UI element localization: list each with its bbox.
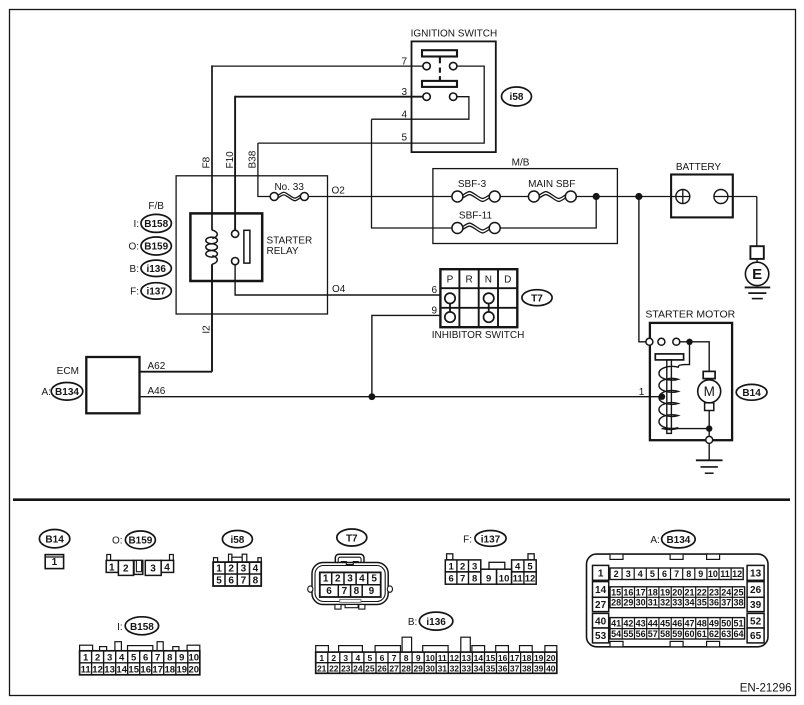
svg-text:SBF-3: SBF-3 bbox=[458, 179, 487, 190]
svg-text:58: 58 bbox=[660, 629, 670, 639]
svg-text:32: 32 bbox=[660, 598, 670, 608]
svg-text:16: 16 bbox=[623, 587, 633, 597]
svg-text:I:: I: bbox=[133, 219, 139, 230]
svg-text:11: 11 bbox=[720, 569, 730, 579]
svg-text:23: 23 bbox=[341, 663, 351, 673]
svg-text:22: 22 bbox=[329, 663, 339, 673]
connector view B14 drawing bbox=[45, 555, 63, 569]
svg-text:36: 36 bbox=[709, 598, 719, 608]
svg-text:5: 5 bbox=[368, 653, 373, 663]
svg-text:12: 12 bbox=[450, 653, 460, 663]
svg-text:T7: T7 bbox=[346, 533, 358, 544]
inhibitor switch contacts N bbox=[484, 293, 494, 303]
svg-text:44: 44 bbox=[648, 618, 658, 628]
svg-text:4: 4 bbox=[359, 574, 365, 585]
solenoid coil bbox=[659, 365, 685, 430]
svg-text:13: 13 bbox=[104, 664, 115, 675]
svg-text:13: 13 bbox=[462, 653, 472, 663]
svg-text:IGNITION SWITCH: IGNITION SWITCH bbox=[411, 28, 498, 39]
connector view i136 drawing bbox=[316, 637, 557, 673]
svg-text:O:: O: bbox=[112, 536, 123, 547]
svg-text:19: 19 bbox=[534, 653, 544, 663]
starter motor box bbox=[650, 323, 732, 440]
svg-text:26: 26 bbox=[750, 585, 762, 596]
svg-text:F/B: F/B bbox=[148, 201, 164, 212]
svg-text:ECM: ECM bbox=[57, 366, 79, 377]
svg-text:F:: F: bbox=[463, 534, 472, 545]
svg-text:F8: F8 bbox=[202, 156, 213, 168]
inhibitor switch contacts P bbox=[445, 293, 455, 303]
svg-text:8: 8 bbox=[253, 576, 259, 587]
svg-text:37: 37 bbox=[721, 598, 731, 608]
svg-text:3: 3 bbox=[472, 561, 477, 572]
svg-text:D: D bbox=[504, 275, 511, 286]
svg-text:A46: A46 bbox=[148, 386, 166, 397]
svg-text:9: 9 bbox=[486, 574, 491, 585]
svg-text:1: 1 bbox=[216, 564, 222, 575]
svg-text:1: 1 bbox=[52, 557, 58, 568]
svg-text:25: 25 bbox=[733, 587, 743, 597]
svg-text:EN-21296: EN-21296 bbox=[740, 682, 792, 694]
svg-text:5: 5 bbox=[371, 574, 377, 585]
svg-text:14: 14 bbox=[595, 585, 607, 596]
battery positive terminal bbox=[676, 190, 690, 204]
svg-text:A62: A62 bbox=[148, 361, 166, 372]
svg-text:50: 50 bbox=[721, 618, 731, 628]
wire relay bottom contact to O4/pin6 bbox=[235, 265, 440, 295]
svg-text:23: 23 bbox=[709, 587, 719, 597]
svg-text:2: 2 bbox=[123, 564, 129, 575]
svg-text:64: 64 bbox=[733, 629, 743, 639]
svg-text:6: 6 bbox=[228, 576, 234, 587]
svg-text:59: 59 bbox=[672, 629, 682, 639]
svg-text:9: 9 bbox=[369, 586, 375, 597]
svg-text:MAIN SBF: MAIN SBF bbox=[528, 179, 575, 190]
svg-text:No. 33: No. 33 bbox=[274, 182, 304, 193]
svg-text:29: 29 bbox=[413, 663, 423, 673]
ignition switch box bbox=[412, 41, 496, 152]
solenoid plunger T-bar bbox=[655, 354, 683, 360]
ignition switch linkage dashed line bbox=[439, 68, 441, 81]
relay coil bbox=[206, 230, 218, 264]
solenoid contact circle 3 bbox=[673, 338, 680, 345]
svg-text:27: 27 bbox=[389, 663, 399, 673]
svg-text:10: 10 bbox=[708, 569, 718, 579]
motor M bbox=[698, 380, 721, 403]
svg-text:R: R bbox=[465, 275, 472, 286]
svg-text:B134: B134 bbox=[666, 535, 690, 546]
separator line between schematic and connector views bbox=[13, 498, 790, 501]
solenoid plunger stem bbox=[667, 360, 672, 434]
svg-text:3: 3 bbox=[241, 564, 247, 575]
svg-text:F:: F: bbox=[130, 287, 139, 298]
svg-text:19: 19 bbox=[177, 664, 188, 675]
wire pin 5 to B38 vertical bbox=[258, 143, 270, 196]
svg-text:2: 2 bbox=[335, 574, 341, 585]
svg-text:18: 18 bbox=[522, 653, 532, 663]
ignition switch contact (pole2 right) bbox=[450, 93, 457, 100]
svg-text:16: 16 bbox=[140, 664, 151, 675]
motor brush bottom bbox=[705, 403, 714, 411]
svg-text:1: 1 bbox=[639, 387, 645, 398]
svg-text:O:: O: bbox=[128, 242, 139, 253]
svg-text:7: 7 bbox=[674, 569, 679, 579]
svg-text:7: 7 bbox=[241, 576, 247, 587]
relay armature bar bbox=[244, 230, 250, 263]
svg-text:1: 1 bbox=[319, 653, 324, 663]
svg-text:25: 25 bbox=[365, 663, 375, 673]
wire MAIN SBF to battery bbox=[576, 196, 671, 198]
svg-text:17: 17 bbox=[636, 587, 646, 597]
wire pin 3 to F10 bbox=[235, 96, 423, 98]
svg-text:10: 10 bbox=[425, 653, 435, 663]
connector view B159 drawing bbox=[106, 555, 173, 576]
svg-text:20: 20 bbox=[546, 653, 556, 663]
ground connector square bbox=[750, 246, 763, 259]
svg-text:36: 36 bbox=[498, 663, 508, 673]
svg-text:21: 21 bbox=[317, 663, 327, 673]
svg-text:I:: I: bbox=[117, 622, 123, 633]
svg-text:13: 13 bbox=[750, 568, 762, 579]
svg-text:24: 24 bbox=[721, 587, 731, 597]
svg-text:42: 42 bbox=[623, 618, 633, 628]
svg-text:33: 33 bbox=[462, 663, 472, 673]
svg-text:B:: B: bbox=[408, 617, 417, 628]
svg-text:8: 8 bbox=[472, 574, 477, 585]
svg-text:A:: A: bbox=[41, 387, 50, 398]
svg-text:29: 29 bbox=[623, 598, 633, 608]
svg-text:8: 8 bbox=[404, 653, 409, 663]
svg-text:B159: B159 bbox=[144, 242, 168, 253]
svg-text:A:: A: bbox=[650, 535, 659, 546]
svg-text:4: 4 bbox=[401, 110, 407, 121]
svg-text:49: 49 bbox=[709, 618, 719, 628]
svg-text:35: 35 bbox=[486, 663, 496, 673]
svg-text:6: 6 bbox=[448, 574, 453, 585]
svg-text:4: 4 bbox=[164, 562, 170, 573]
svg-text:2: 2 bbox=[95, 652, 100, 663]
solenoid contact circle 2 bbox=[658, 338, 665, 345]
svg-text:i136: i136 bbox=[426, 617, 446, 628]
F/B fuse box outline bbox=[176, 176, 327, 314]
wire pole2 right contact to pin 4 bbox=[372, 97, 469, 120]
svg-text:T7: T7 bbox=[531, 293, 543, 304]
svg-text:14: 14 bbox=[474, 653, 484, 663]
wire battery junction to starter motor bbox=[639, 197, 646, 342]
svg-text:52: 52 bbox=[750, 616, 762, 627]
ignition switch contact pin 3 bbox=[423, 93, 430, 100]
svg-text:8: 8 bbox=[167, 652, 172, 663]
svg-text:F10: F10 bbox=[225, 151, 236, 169]
svg-text:34: 34 bbox=[684, 598, 694, 608]
svg-text:2: 2 bbox=[614, 569, 619, 579]
svg-text:14: 14 bbox=[116, 664, 127, 675]
svg-text:B134: B134 bbox=[55, 387, 79, 398]
svg-text:B158: B158 bbox=[130, 622, 154, 633]
svg-text:31: 31 bbox=[438, 663, 448, 673]
svg-text:63: 63 bbox=[721, 629, 731, 639]
svg-text:38: 38 bbox=[522, 663, 532, 673]
relay contact top bbox=[232, 230, 239, 237]
svg-text:30: 30 bbox=[425, 663, 435, 673]
svg-text:30: 30 bbox=[636, 598, 646, 608]
wire junction to solenoid coil bbox=[684, 342, 690, 365]
svg-text:5: 5 bbox=[401, 132, 407, 143]
M/B fuse box outline bbox=[433, 169, 618, 244]
svg-text:45: 45 bbox=[660, 618, 670, 628]
wire pin 7 to F8 bbox=[212, 65, 423, 67]
svg-text:B14: B14 bbox=[742, 388, 761, 399]
svg-text:3: 3 bbox=[150, 564, 156, 575]
battery box bbox=[671, 175, 733, 218]
svg-text:6: 6 bbox=[662, 569, 667, 579]
svg-text:11: 11 bbox=[438, 653, 447, 663]
connector view i58 label bbox=[222, 531, 252, 548]
wire A46 to starter motor pin 1 bbox=[140, 396, 663, 398]
ignition switch pole bar 2 bbox=[422, 81, 457, 87]
svg-text:1: 1 bbox=[83, 652, 89, 663]
connector view B158 drawing bbox=[80, 642, 200, 675]
solenoid contact circle 1 bbox=[646, 338, 653, 345]
svg-text:40: 40 bbox=[546, 663, 556, 673]
svg-text:SBF-11: SBF-11 bbox=[459, 210, 493, 221]
svg-text:53: 53 bbox=[595, 631, 607, 642]
svg-text:i58: i58 bbox=[230, 535, 244, 546]
svg-text:11: 11 bbox=[513, 574, 524, 585]
svg-text:7: 7 bbox=[155, 652, 160, 663]
svg-text:i137: i137 bbox=[146, 287, 166, 298]
connector ref i58 bbox=[502, 87, 532, 106]
junction dot M/B bbox=[593, 193, 600, 200]
ignition switch pole bar 1 bbox=[422, 50, 457, 56]
svg-text:34: 34 bbox=[474, 663, 484, 673]
wire No.33 to SBF-3 (O2) bbox=[308, 196, 452, 198]
svg-text:55: 55 bbox=[623, 629, 633, 639]
svg-text:6: 6 bbox=[380, 653, 385, 663]
ignition switch contact pin 7 bbox=[423, 62, 430, 69]
wire F10 vertical bbox=[234, 96, 236, 231]
wire SBF-11 to junction bbox=[500, 197, 596, 229]
svg-text:3: 3 bbox=[347, 574, 353, 585]
wire coil bottom to motor return bbox=[662, 428, 710, 430]
junction dot A46/pin9 bbox=[369, 393, 376, 400]
svg-text:37: 37 bbox=[510, 663, 520, 673]
junction dot motor return bbox=[706, 425, 712, 431]
svg-text:5: 5 bbox=[131, 652, 137, 663]
svg-text:5: 5 bbox=[527, 561, 533, 572]
ignition switch contact (pole1 right) bbox=[450, 62, 457, 69]
svg-text:15: 15 bbox=[128, 664, 139, 675]
svg-text:10: 10 bbox=[189, 652, 200, 663]
svg-text:39: 39 bbox=[750, 600, 762, 611]
svg-text:7: 7 bbox=[392, 653, 397, 663]
svg-text:5: 5 bbox=[216, 576, 222, 587]
svg-text:17: 17 bbox=[152, 664, 163, 675]
svg-text:O2: O2 bbox=[332, 186, 346, 197]
svg-text:4: 4 bbox=[119, 652, 125, 663]
svg-text:9: 9 bbox=[416, 653, 421, 663]
svg-text:27: 27 bbox=[595, 600, 607, 611]
svg-text:N: N bbox=[485, 275, 492, 286]
svg-text:65: 65 bbox=[750, 631, 762, 642]
wire SBF-3 to MAIN SBF bbox=[500, 196, 528, 198]
connector view T7 label bbox=[337, 529, 367, 546]
svg-text:9: 9 bbox=[698, 569, 703, 579]
junction dot pin 1 on coil bbox=[659, 394, 665, 400]
junction dot battery feed bbox=[635, 193, 642, 200]
svg-text:M/B: M/B bbox=[512, 158, 530, 169]
motor brush top bbox=[703, 371, 715, 378]
svg-text:6: 6 bbox=[143, 652, 148, 663]
svg-text:3: 3 bbox=[626, 569, 631, 579]
svg-text:12: 12 bbox=[92, 664, 103, 675]
svg-text:i136: i136 bbox=[146, 264, 166, 275]
svg-text:I2: I2 bbox=[201, 325, 212, 334]
svg-text:3: 3 bbox=[107, 652, 112, 663]
starter relay box bbox=[190, 213, 262, 281]
svg-text:7: 7 bbox=[460, 574, 465, 585]
wire F8 vertical bbox=[211, 65, 213, 230]
svg-text:2: 2 bbox=[228, 564, 234, 575]
connector view i58 drawing bbox=[213, 554, 261, 586]
svg-text:18: 18 bbox=[648, 587, 658, 597]
svg-text:51: 51 bbox=[733, 618, 743, 628]
svg-text:48: 48 bbox=[697, 618, 707, 628]
svg-text:17: 17 bbox=[510, 653, 520, 663]
svg-text:6: 6 bbox=[326, 586, 332, 597]
connector view B134 drawing bbox=[587, 554, 769, 647]
connector view B14 label bbox=[39, 530, 69, 548]
fuse No. 33 bbox=[270, 193, 278, 201]
wire pin 4 down to SBF-11 bbox=[372, 119, 453, 228]
svg-text:1: 1 bbox=[598, 568, 604, 579]
svg-text:19: 19 bbox=[660, 587, 670, 597]
svg-text:9: 9 bbox=[179, 652, 184, 663]
svg-text:31: 31 bbox=[648, 598, 658, 608]
svg-text:40: 40 bbox=[595, 616, 607, 627]
svg-text:i137: i137 bbox=[481, 534, 501, 545]
svg-text:2: 2 bbox=[460, 561, 465, 572]
svg-text:3: 3 bbox=[343, 653, 348, 663]
svg-text:BATTERY: BATTERY bbox=[676, 162, 722, 173]
svg-text:12: 12 bbox=[525, 574, 536, 585]
inhibitor switch grid bbox=[440, 269, 517, 327]
svg-text:56: 56 bbox=[636, 629, 646, 639]
svg-text:O4: O4 bbox=[332, 284, 346, 295]
svg-text:B159: B159 bbox=[128, 536, 152, 547]
svg-text:41: 41 bbox=[611, 618, 621, 628]
svg-text:4: 4 bbox=[638, 569, 643, 579]
relay contact bottom bbox=[232, 258, 239, 265]
svg-text:11: 11 bbox=[81, 664, 92, 675]
svg-text:INHIBITOR SWITCH: INHIBITOR SWITCH bbox=[432, 330, 525, 341]
svg-text:4: 4 bbox=[253, 564, 259, 575]
svg-text:B158: B158 bbox=[144, 219, 168, 230]
svg-text:6: 6 bbox=[431, 285, 437, 296]
svg-text:1: 1 bbox=[448, 561, 454, 572]
svg-text:STARTER MOTOR: STARTER MOTOR bbox=[645, 309, 735, 321]
connector ref B14 bbox=[736, 384, 767, 400]
svg-text:60: 60 bbox=[684, 629, 694, 639]
connector ref T7 bbox=[522, 290, 552, 306]
wire relay coil to A62 (I2 vertical) bbox=[211, 264, 213, 372]
wire motor to ground contact bbox=[708, 411, 710, 429]
svg-text:5: 5 bbox=[650, 569, 655, 579]
svg-text:1: 1 bbox=[109, 562, 115, 573]
svg-text:4: 4 bbox=[356, 653, 361, 663]
wire pin 9 to A46 junction bbox=[372, 315, 441, 396]
ground symbol (starter motor) bbox=[708, 443, 710, 460]
svg-text:10: 10 bbox=[499, 574, 510, 585]
svg-text:43: 43 bbox=[636, 618, 646, 628]
svg-text:12: 12 bbox=[732, 569, 742, 579]
connector view T7 drawing bbox=[308, 554, 393, 609]
wire A62 to relay coil bbox=[140, 371, 213, 373]
svg-text:61: 61 bbox=[697, 629, 707, 639]
svg-text:M: M bbox=[704, 384, 715, 399]
svg-text:46: 46 bbox=[672, 618, 682, 628]
svg-text:24: 24 bbox=[353, 663, 363, 673]
svg-text:B14: B14 bbox=[45, 535, 64, 546]
svg-text:4: 4 bbox=[515, 561, 521, 572]
ground E circle bbox=[745, 262, 768, 285]
svg-text:38: 38 bbox=[733, 598, 743, 608]
wire contact 3 to motor feed bbox=[680, 342, 709, 372]
svg-text:26: 26 bbox=[377, 663, 387, 673]
svg-text:9: 9 bbox=[431, 306, 437, 317]
svg-text:28: 28 bbox=[401, 663, 411, 673]
svg-text:B:: B: bbox=[130, 264, 139, 275]
wire pole1 right contact to pin 5 bbox=[258, 66, 484, 143]
svg-text:54: 54 bbox=[611, 629, 621, 639]
svg-text:20: 20 bbox=[189, 664, 200, 675]
ECM box bbox=[86, 357, 139, 413]
svg-text:18: 18 bbox=[165, 664, 176, 675]
ground symbol (battery) bbox=[745, 286, 771, 288]
svg-text:STARTER: STARTER bbox=[267, 236, 313, 247]
svg-text:7: 7 bbox=[342, 586, 348, 597]
svg-text:57: 57 bbox=[648, 629, 658, 639]
svg-text:39: 39 bbox=[534, 663, 544, 673]
svg-text:33: 33 bbox=[672, 598, 682, 608]
svg-text:8: 8 bbox=[686, 569, 691, 579]
svg-text:28: 28 bbox=[611, 598, 621, 608]
junction dot solenoid bbox=[686, 339, 692, 345]
svg-text:1: 1 bbox=[323, 574, 329, 585]
svg-text:2: 2 bbox=[331, 653, 336, 663]
svg-text:B38: B38 bbox=[248, 150, 259, 168]
connector view i137 drawing bbox=[445, 554, 536, 584]
svg-text:32: 32 bbox=[450, 663, 460, 673]
svg-text:RELAY: RELAY bbox=[267, 246, 299, 257]
battery negative terminal bbox=[714, 190, 728, 204]
svg-text:21: 21 bbox=[684, 587, 694, 597]
svg-text:E: E bbox=[752, 266, 762, 283]
svg-text:35: 35 bbox=[697, 598, 707, 608]
svg-text:62: 62 bbox=[709, 629, 719, 639]
svg-text:i58: i58 bbox=[510, 92, 524, 103]
ignition switch actuator stem bbox=[439, 57, 441, 64]
svg-text:15: 15 bbox=[611, 587, 621, 597]
svg-text:8: 8 bbox=[354, 586, 360, 597]
wire battery to ground E bbox=[714, 196, 757, 198]
svg-text:20: 20 bbox=[672, 587, 682, 597]
svg-text:47: 47 bbox=[684, 618, 694, 628]
svg-text:15: 15 bbox=[486, 653, 496, 663]
svg-text:16: 16 bbox=[498, 653, 508, 663]
svg-text:P: P bbox=[447, 275, 454, 286]
svg-text:22: 22 bbox=[697, 587, 707, 597]
